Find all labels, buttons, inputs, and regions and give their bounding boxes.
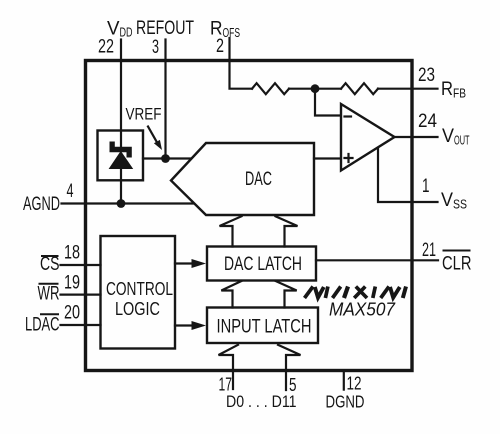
svg-text:OUT: OUT [454,134,470,148]
zener diode D1 anode triangle [110,152,132,168]
svg-text:MAX507: MAX507 [329,299,396,320]
node REFOUT junction [161,154,170,163]
svg-text:22: 22 [98,37,114,58]
LDAC overline [40,313,59,315]
svg-text:OFS: OFS [223,26,241,40]
svg-text:FB: FB [453,87,466,101]
WR overline [39,283,59,285]
node AGND junction [117,199,126,208]
svg-text:18: 18 [64,243,80,264]
svg-text:1: 1 [422,176,430,197]
pin 22 lead VDD [120,40,122,61]
bus arrow data pins to input latch [219,345,301,390]
label VDD [107,19,133,40]
bus arrow input latch to DAC latch [221,281,296,308]
pin 20 lead LDAC [61,324,101,326]
DAC latch box [207,247,316,281]
svg-text:DAC: DAC [245,168,272,190]
node R1 R2 junction [311,84,320,93]
wire DAC latch to CLR pin 21 [316,259,438,261]
pin 19 lead WR [61,294,101,296]
chip outline [86,61,413,371]
resistor R2 [341,83,378,94]
svg-text:V: V [442,126,454,147]
label VOUT [442,126,470,148]
CS overline [41,255,59,257]
wire DAC to op-amp non-inverting input [314,157,341,159]
svg-text:24: 24 [418,111,437,132]
svg-text:LOGIC: LOGIC [115,299,160,319]
wire ROFS to R1 [230,61,253,89]
svg-text:CS: CS [40,254,60,275]
wire node to R2 [315,88,341,90]
svg-text:REFOUT: REFOUT [136,18,194,39]
svg-text:LDAC: LDAC [25,315,60,336]
svg-text:2: 2 [216,36,224,57]
svg-text:20: 20 [64,303,80,324]
pin 3 lead REFOUT [164,40,166,61]
control logic box [101,236,176,349]
wire VDD to reference [120,61,122,147]
wire op-amp output to VOUT pin 24 [395,136,438,138]
svg-text:4: 4 [67,181,74,202]
wire AGND into chip [86,202,122,204]
svg-text:23: 23 [418,65,435,86]
DAC block [171,143,314,215]
wire diode anode to AGND node [120,168,122,204]
svg-text:DD: DD [120,26,133,40]
label CONTROL LOGIC [106,279,173,319]
svg-text:WR: WR [38,284,60,305]
svg-text:SS: SS [453,198,467,212]
svg-text:3: 3 [152,37,159,58]
wire reference output [143,157,166,159]
svg-text:D0 . . . D11: D0 . . . D11 [226,392,297,411]
svg-text:AGND: AGND [23,194,60,215]
wire REFOUT to node [164,61,166,159]
svg-text:CONTROL: CONTROL [106,279,173,299]
svg-text:R: R [441,79,453,100]
pin 2 lead ROFS [228,38,230,61]
svg-text:12: 12 [347,374,362,394]
op-amp plus sign [345,154,353,162]
bus arrow DAC latch to DAC [220,216,298,246]
resistor R1 [252,83,289,94]
wire node to DAC [166,157,193,159]
input latch box [207,308,318,344]
Maxim logo [305,287,407,299]
pin 12 lead DGND [343,371,345,390]
svg-text:DAC LATCH: DAC LATCH [224,254,302,275]
arrow control logic to input latch [175,324,193,326]
wire R2 to RFB pin 23 [378,88,438,90]
CLR overline [443,250,471,252]
voltage reference box [98,131,144,181]
wire AGND to DAC [121,202,195,204]
label VSS [441,190,467,212]
wire op-amp to VSS pin 1 [378,148,438,202]
op-amp minus sign [345,115,352,117]
svg-text:INPUT LATCH: INPUT LATCH [217,317,312,338]
svg-text:CLR: CLR [442,254,472,275]
svg-text:V: V [441,190,453,211]
zener diode D1 cathode bar [110,142,132,158]
svg-text:VREF: VREF [126,105,162,124]
svg-text:21: 21 [422,240,436,261]
label ROFS [210,19,240,41]
VREF pointer arrow [148,127,157,142]
pin 4 lead AGND [62,202,86,204]
svg-text:DGND: DGND [326,392,365,412]
label RFB [441,79,466,101]
wire node to op-amp inverting input [315,89,341,116]
arrow control logic to DAC latch [175,262,193,264]
wire R1 to node [289,88,315,90]
op-amp U1 [341,104,395,171]
svg-text:19: 19 [64,273,80,294]
pin 18 lead CS [61,264,101,266]
